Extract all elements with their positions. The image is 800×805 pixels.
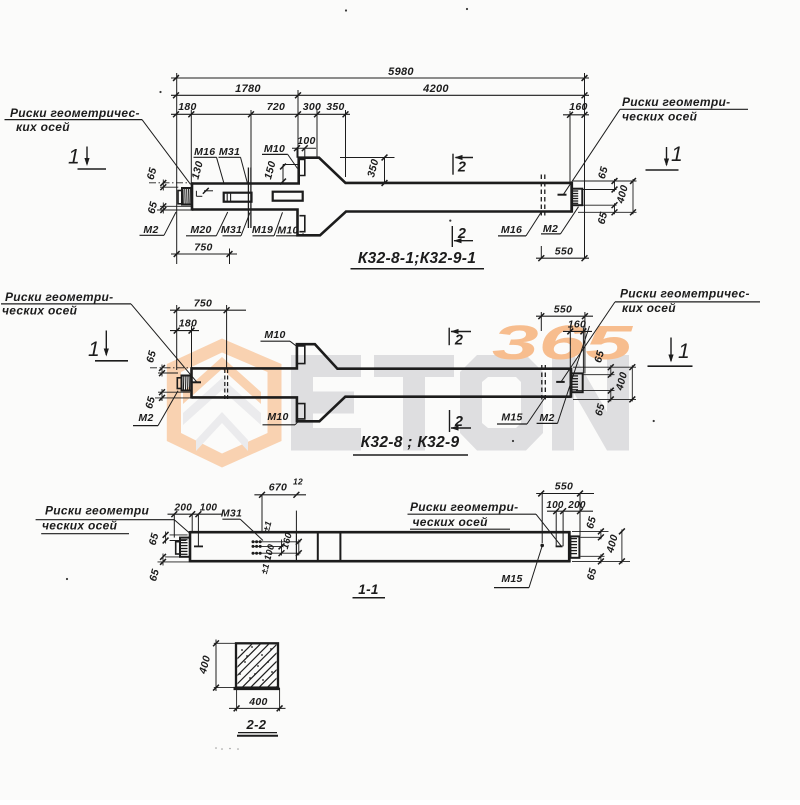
D2 right anchor plate serrated bbox=[572, 373, 583, 392]
note underline left bbox=[5, 119, 143, 121]
dim 550 bottom bbox=[536, 257, 589, 259]
svg-text:1: 1 bbox=[88, 338, 100, 361]
svg-text:1780: 1780 bbox=[235, 83, 261, 95]
svg-text:670: 670 bbox=[269, 482, 287, 494]
D3 leader left bbox=[174, 520, 189, 533]
D3 extension x580 bbox=[579, 494, 581, 537]
svg-text:200: 200 bbox=[567, 500, 586, 511]
D3 dims 200 100 left bbox=[168, 513, 223, 515]
D3 right dim 65 lower bbox=[600, 554, 602, 563]
D2 leader right bbox=[561, 302, 615, 382]
left side dim 65 lower bbox=[160, 205, 191, 207]
D2 right dim 400 bbox=[631, 365, 633, 401]
column right end face bbox=[570, 182, 573, 213]
D3 right anchor plate serrated bbox=[570, 536, 579, 557]
svg-text:400: 400 bbox=[248, 696, 267, 708]
svg-text:550: 550 bbox=[555, 246, 573, 258]
D2 hook channel M10 top bbox=[298, 346, 305, 364]
D2 left anchor plate bbox=[182, 376, 192, 391]
svg-text:100: 100 bbox=[297, 135, 315, 147]
extension line right end x584 bbox=[584, 73, 586, 259]
D3 extension x174 bbox=[173, 514, 175, 537]
svg-text:М10: М10 bbox=[267, 411, 288, 423]
D2 left anchor small block bbox=[177, 378, 181, 389]
left anchor small block bbox=[178, 191, 182, 204]
dim line 160 right bbox=[563, 114, 589, 116]
dim 150 vertical bbox=[283, 164, 299, 166]
watermark letter T bbox=[374, 355, 454, 451]
D4 dim 400 left bbox=[215, 640, 217, 692]
D3 right side extension lines bbox=[572, 530, 609, 532]
svg-text:ческих осей: ческих осей bbox=[622, 110, 698, 124]
D2 section mark 2 lower bbox=[449, 410, 451, 432]
right anchor plate serrated bbox=[572, 189, 583, 206]
extension line x191 bbox=[190, 110, 192, 185]
D3 anchor M31 dots bbox=[252, 540, 255, 543]
D2 dim 550 bbox=[536, 315, 593, 317]
svg-text:750: 750 bbox=[194, 242, 212, 254]
D3 leader right bbox=[536, 514, 561, 546]
svg-text:М20: М20 bbox=[190, 224, 211, 236]
svg-text:2: 2 bbox=[457, 226, 466, 242]
svg-text:1: 1 bbox=[68, 146, 80, 169]
D2 extension x570 bbox=[569, 328, 571, 370]
dim line 5980 bbox=[171, 77, 589, 79]
D2 extension x583 bbox=[582, 328, 584, 374]
D3 extension x556 x563 with axis bar bbox=[555, 511, 557, 546]
D4 section square outline bbox=[236, 643, 278, 687]
slot M13-M10 opening bbox=[273, 192, 303, 201]
svg-text:ких осей: ких осей bbox=[622, 301, 676, 315]
svg-text:К32-8 ; К32-9: К32-8 ; К32-9 bbox=[361, 434, 460, 451]
hook channel M10 bottom bbox=[299, 216, 304, 232]
svg-text:М19: М19 bbox=[252, 224, 273, 236]
rod M31 double line bbox=[247, 168, 249, 229]
svg-text:2: 2 bbox=[454, 333, 463, 349]
svg-text:365: 365 bbox=[492, 317, 634, 370]
right side dim 65 lower bbox=[614, 203, 616, 214]
svg-text:М10: М10 bbox=[264, 329, 285, 341]
watermark logo gray chevron 2 bbox=[196, 412, 248, 451]
stray specks bbox=[345, 9, 347, 11]
column left end face bbox=[191, 182, 194, 210]
D2 left side dim 65 lower bbox=[158, 391, 190, 393]
extension line x251 bbox=[250, 110, 252, 168]
dim 100 top bbox=[292, 147, 316, 149]
axis mark right bbox=[558, 194, 567, 196]
D2 hook channel M10 bottom bbox=[298, 404, 305, 419]
D2 extension x191 bbox=[191, 326, 193, 369]
D2 right dim 65 lower bbox=[610, 389, 612, 402]
column outline bottom profile bbox=[192, 210, 572, 236]
svg-text:12: 12 bbox=[293, 477, 303, 487]
hidden rod M16 dashed right bbox=[540, 175, 542, 216]
svg-text:550: 550 bbox=[555, 481, 573, 493]
section mark 2 upper bbox=[452, 154, 454, 175]
extension line left end x176 bbox=[176, 73, 178, 264]
D3 dim 550 right bbox=[536, 493, 594, 495]
svg-text:М31: М31 bbox=[221, 224, 242, 236]
dim line 1780-4200 bbox=[171, 94, 589, 96]
D4 concrete specks bbox=[241, 649, 243, 651]
D2 hidden rod M15 dashed bbox=[541, 365, 543, 401]
D3 left side dim 65 lower bbox=[165, 556, 190, 558]
D2 extension x584 bbox=[584, 312, 586, 373]
D3 dim 100 vertical bbox=[281, 540, 283, 556]
D4 faint marks bbox=[215, 747, 217, 749]
watermark letter E bbox=[291, 355, 361, 451]
D2 column outline bottom profile bbox=[192, 397, 571, 422]
svg-text:200: 200 bbox=[174, 503, 193, 514]
D2 extension x176 bbox=[176, 305, 178, 370]
svg-text:ческих осей: ческих осей bbox=[413, 515, 489, 529]
hook channel M10 top bbox=[299, 160, 304, 176]
watermark logo inner orange chevron bbox=[183, 357, 261, 404]
left anchor plate serration bbox=[183, 189, 185, 204]
D2 extension x541 bbox=[540, 312, 542, 331]
note underline right bbox=[620, 108, 748, 110]
D3 left side dim 65 upper bbox=[170, 534, 188, 536]
D3 extension x296 upper bbox=[295, 511, 297, 533]
svg-text:300: 300 bbox=[303, 101, 321, 113]
D2 column outline top profile bbox=[192, 344, 571, 369]
svg-text:2: 2 bbox=[454, 414, 463, 430]
svg-text:ких осей: ких осей bbox=[16, 120, 70, 134]
D2 right dim 65 upper bbox=[610, 365, 612, 377]
svg-text:5980: 5980 bbox=[388, 66, 414, 78]
D3 segment line x318 bbox=[317, 532, 319, 561]
svg-text:720: 720 bbox=[267, 101, 285, 113]
D2 section mark 2 upper bbox=[448, 328, 450, 346]
right side dim 400 bbox=[632, 179, 634, 214]
D2 dashed pair mid bbox=[224, 369, 226, 401]
D2 right side extension lines bbox=[573, 366, 636, 368]
D3 left anchor small block bbox=[176, 542, 180, 554]
svg-text:М2: М2 bbox=[543, 223, 558, 235]
watermark letter O bbox=[460, 355, 543, 451]
D3 extension x262 bbox=[261, 495, 263, 533]
svg-text:М2: М2 bbox=[539, 412, 554, 424]
D3 segment line x296 thin bbox=[295, 532, 297, 561]
svg-text:М10: М10 bbox=[277, 225, 298, 237]
right side extension lines bbox=[573, 180, 637, 182]
svg-text:350: 350 bbox=[326, 101, 344, 113]
extension line x298 bbox=[297, 90, 299, 158]
D2 dim 160 bbox=[563, 330, 592, 332]
svg-text:Риски геометричес-: Риски геометричес- bbox=[10, 106, 140, 120]
svg-text:2: 2 bbox=[457, 160, 466, 176]
svg-text:М16: М16 bbox=[194, 146, 215, 158]
watermark logo hexagon ring bbox=[167, 339, 282, 468]
D2 axis mark left bbox=[193, 381, 202, 383]
svg-text:1: 1 bbox=[678, 340, 690, 363]
D4 dim 400 bottom bbox=[229, 707, 286, 709]
svg-text:Риски геометри-: Риски геометри- bbox=[410, 500, 518, 514]
svg-text:М16: М16 bbox=[501, 224, 522, 236]
svg-text:180: 180 bbox=[179, 318, 197, 330]
svg-text:ческих осей: ческих осей bbox=[42, 519, 118, 533]
watermark letter N bbox=[552, 355, 629, 451]
extension line x345 bbox=[345, 110, 347, 177]
D3 extension x542 with M15 point bbox=[541, 494, 543, 544]
dim 350 vertical bbox=[340, 157, 395, 159]
svg-text:М31: М31 bbox=[221, 508, 242, 520]
left anchor plate M2 block bbox=[182, 188, 192, 205]
column outline top profile bbox=[192, 158, 572, 184]
svg-text:100: 100 bbox=[546, 500, 564, 511]
D2 column left end face bbox=[190, 367, 193, 398]
D2 column right end face bbox=[570, 368, 573, 398]
svg-text:М31: М31 bbox=[219, 146, 240, 158]
svg-text:Риски геометри-: Риски геометри- bbox=[622, 95, 730, 109]
slot M20 inner marks bbox=[226, 194, 228, 201]
D4 square thick bottom edge bbox=[234, 687, 280, 690]
D3 beam outline bbox=[190, 531, 570, 534]
D2 dim 180 bbox=[170, 330, 199, 332]
svg-text:Риски геометри-: Риски геометри- bbox=[5, 290, 113, 304]
D2 axis mark right bbox=[556, 381, 565, 383]
D3 extension x192 bbox=[191, 514, 193, 532]
svg-text:М2: М2 bbox=[143, 224, 158, 236]
svg-text:1: 1 bbox=[671, 143, 683, 166]
svg-text:4200: 4200 bbox=[422, 83, 449, 95]
D3 right dim 400 bbox=[621, 529, 623, 563]
D3 segment line x340 bbox=[339, 532, 341, 561]
D3 dot rows reference lines bbox=[253, 541, 301, 543]
svg-text:2-2: 2-2 bbox=[246, 717, 267, 732]
watermark logo gray chevron 1 bbox=[183, 378, 261, 425]
D3 left anchor plate serrated bbox=[180, 538, 190, 557]
D3 right dim 65 upper bbox=[600, 529, 602, 539]
D2 leader left bbox=[131, 304, 197, 382]
svg-text:М10: М10 bbox=[264, 143, 285, 155]
svg-text:Риски геометри: Риски геометри bbox=[45, 504, 149, 518]
leader from note to beam left end bbox=[142, 120, 191, 185]
svg-text:180: 180 bbox=[178, 101, 196, 113]
left side dim 65 upper bbox=[149, 182, 189, 184]
D3 dim 160 vertical bbox=[298, 540, 300, 556]
D3 dims 100 200 right bbox=[547, 510, 593, 512]
leader from right note to beam right end bbox=[564, 109, 621, 194]
D2 dim 750 bbox=[170, 309, 246, 311]
extension line x541 for 550 bbox=[540, 246, 542, 259]
dim 750 bottom bbox=[171, 253, 237, 255]
svg-text:М15: М15 bbox=[501, 573, 522, 585]
section mark 2 lower bbox=[451, 226, 453, 247]
slot M20 opening bbox=[224, 193, 252, 202]
svg-text:550: 550 bbox=[554, 304, 572, 316]
svg-text:100: 100 bbox=[200, 503, 218, 514]
D3 dim 670+12 bbox=[254, 494, 306, 496]
svg-text:ческих осей: ческих осей bbox=[2, 304, 78, 318]
svg-text:М2: М2 bbox=[138, 412, 153, 424]
extension line x570 bbox=[569, 111, 571, 183]
right side dim 65 upper bbox=[614, 179, 616, 192]
svg-text:Риски геометричес-: Риски геометричес- bbox=[620, 287, 750, 301]
svg-text:К32-8-1;К32-9-1: К32-8-1;К32-9-1 bbox=[358, 250, 476, 267]
svg-text:1-1: 1-1 bbox=[358, 582, 378, 597]
D2 extension x226 bbox=[226, 305, 228, 369]
D2 left side dim 65 upper bbox=[150, 367, 190, 369]
dim line 180-720-300-350 bbox=[171, 113, 350, 115]
svg-text:М15: М15 bbox=[501, 412, 522, 424]
svg-text:750: 750 bbox=[194, 298, 212, 310]
extension line x317 bbox=[316, 110, 318, 158]
D3 extension x198 with axis bar bbox=[197, 514, 199, 546]
